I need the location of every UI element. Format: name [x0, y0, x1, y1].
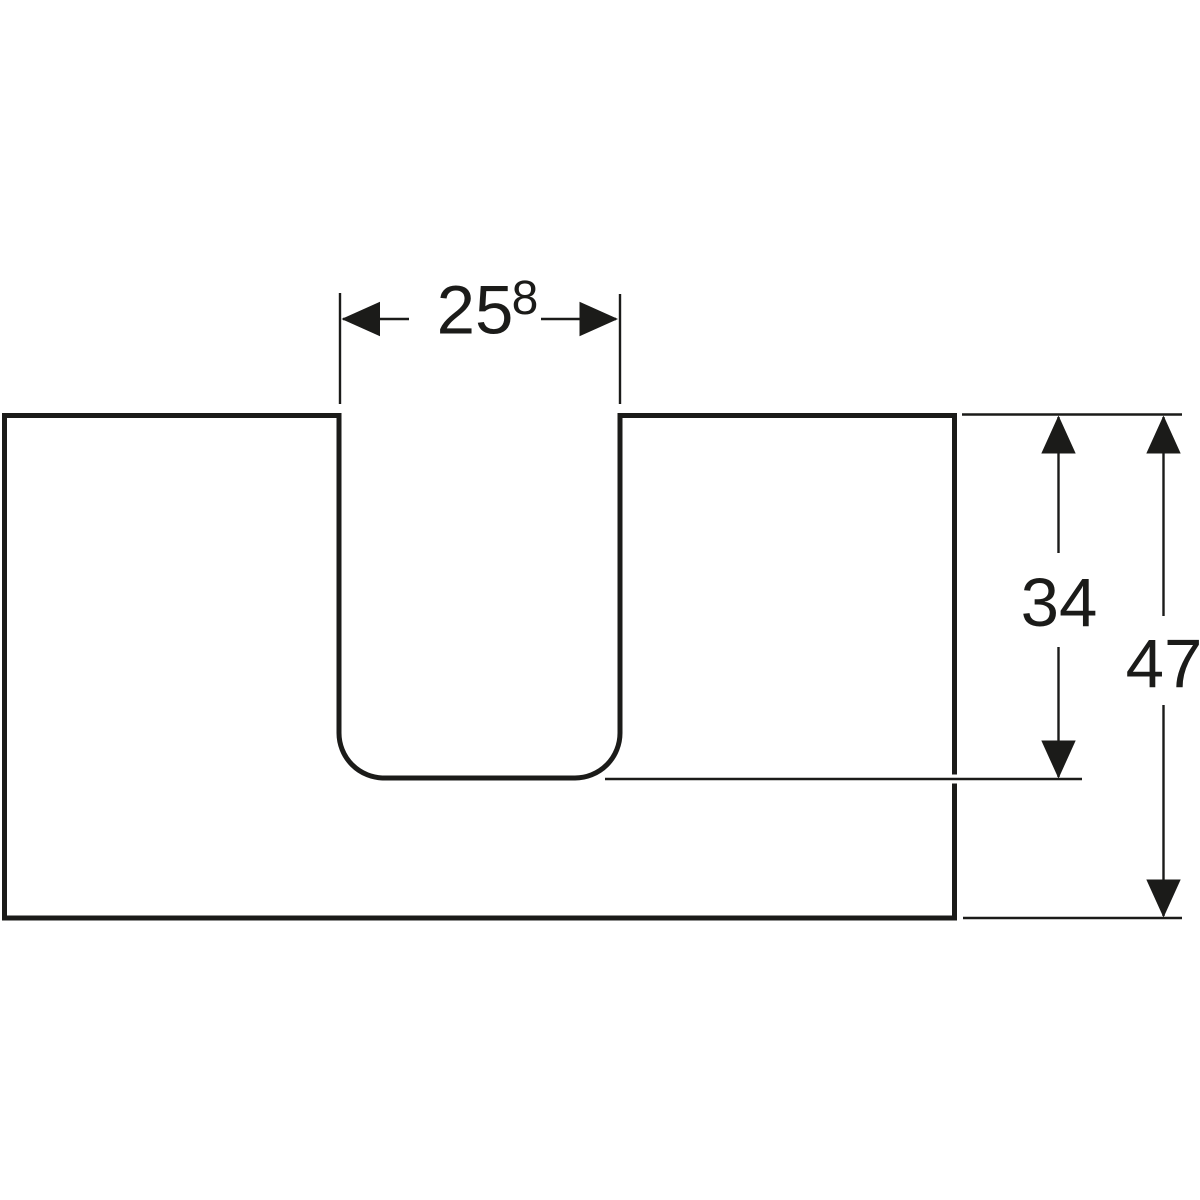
svg-text:34: 34 [1021, 564, 1098, 641]
svg-text:25: 25 [437, 272, 514, 349]
svg-text:8: 8 [512, 272, 539, 325]
svg-text:47: 47 [1126, 625, 1200, 702]
